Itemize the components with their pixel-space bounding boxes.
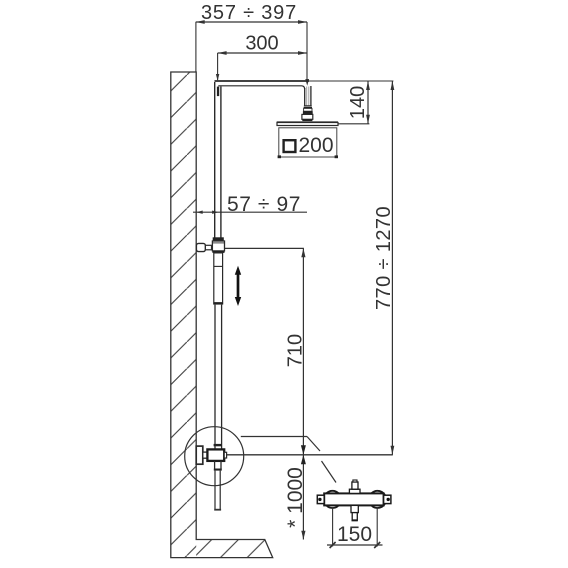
dimension 770÷1270 [373,81,395,455]
valve centre extension line [226,454,393,456]
stem coupling nut [302,106,313,121]
detail circle [185,427,244,486]
svg-text:300: 300 [245,33,278,55]
shower head plate [277,122,338,126]
dimension 57÷97 [193,193,307,216]
svg-text:200: 200 [299,134,334,157]
front view: top fitting [349,480,360,493]
dimension *1000 [284,455,307,540]
label box □200 [278,128,338,158]
front view: end caps [317,495,391,503]
svg-text:140: 140 [347,86,369,119]
mixer valve neck [203,452,208,458]
slider bracket [212,237,224,253]
dimension 357÷397 [196,2,307,81]
svg-text:150: 150 [337,523,372,546]
top extension line (arm top to right dims) [309,80,393,82]
wall [171,72,273,558]
svg-text:770 ÷ 1270: 770 ÷ 1270 [373,206,395,310]
hand shower sleeve [213,253,223,305]
mixer valve wall flange [196,446,203,464]
dimension 710 [225,248,307,454]
shower arm [215,81,310,89]
dimension 150 [327,508,383,548]
movement double arrow [235,266,241,306]
front view: valve body bar [324,493,383,505]
mixer valve body [207,449,226,461]
slider wall knob [196,243,211,251]
front view: bottom fitting [351,505,358,520]
dimension 300 [216,33,307,82]
mixer valve top joint [214,444,222,446]
svg-text:357 ÷ 397: 357 ÷ 397 [201,2,297,24]
riser pipe lower section [215,305,222,449]
front view: handles [324,491,386,508]
valve bottom pipe [214,461,222,511]
shower head stem [305,86,311,106]
dimension 140 [338,81,370,124]
riser pipe upper section [215,82,221,238]
leader line to front view [241,437,336,483]
